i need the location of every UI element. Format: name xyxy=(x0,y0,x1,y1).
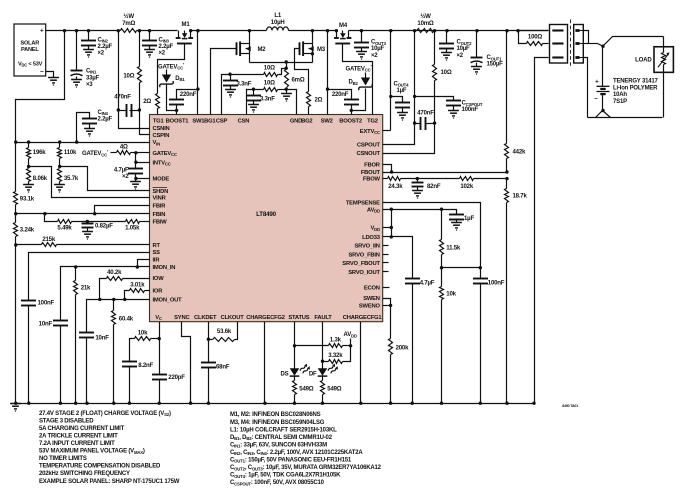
svg-text:18.7k: 18.7k xyxy=(513,194,528,200)
svg-text:27.4V STAGE 2 (FLOAT) CHARGE V: 27.4V STAGE 2 (FLOAT) CHARGE VOLTAGE (VS… xyxy=(39,411,171,417)
svg-text:LOAD: LOAD xyxy=(635,58,652,64)
svg-text:EXAMPLE SOLAR PANEL: SHARP NT-: EXAMPLE SOLAR PANEL: SHARP NT-175UC1 175… xyxy=(39,479,180,485)
svg-text:33µF: 33µF xyxy=(86,75,100,81)
label 10nF IMON_OUT xyxy=(95,336,109,342)
label 8.2nF xyxy=(138,363,153,369)
svg-text:M3: M3 xyxy=(317,47,326,53)
svg-text:6mΩ: 6mΩ xyxy=(292,78,305,84)
wire TEMPSENSE row xyxy=(383,203,481,268)
wire M3 gate to 2ohm xyxy=(295,49,309,92)
node MODE junction xyxy=(134,177,137,180)
svg-text:×2: ×2 xyxy=(122,174,129,180)
svg-text:102k: 102k xyxy=(460,184,473,190)
svg-text:2A TRICKLE CURRENT LIMIT: 2A TRICKLE CURRENT LIMIT xyxy=(39,434,118,440)
ground CIN3 xyxy=(144,50,155,58)
node INTVCC junction xyxy=(134,161,137,164)
capacitor 82nF xyxy=(412,179,424,191)
solar panel source box xyxy=(14,24,46,76)
label 3.3nF CSP xyxy=(237,82,252,88)
svg-text:110k: 110k xyxy=(64,150,77,156)
wire to CSPIN pin xyxy=(140,111,150,135)
diode DB2 xyxy=(349,73,373,91)
label 200k xyxy=(396,346,409,352)
node 6mohm top xyxy=(285,60,288,63)
wire battery return to ground bus xyxy=(535,58,549,404)
IC top pin labels xyxy=(153,119,378,125)
wire AVDD supply stub xyxy=(350,339,352,346)
wire CLKDET column xyxy=(208,322,210,340)
svg-text:RT: RT xyxy=(153,243,161,249)
wire M3 source rail xyxy=(311,49,314,63)
svg-text:COUT2, COUT3: 10µF, 35V, MURAT: COUT2, COUT3: 10µF, 35V, MURATA GRM32ER7… xyxy=(230,465,382,471)
svg-text:CSPIN: CSPIN xyxy=(153,133,170,139)
wire INTVCC branch xyxy=(136,153,150,163)
svg-text:10k: 10k xyxy=(446,291,456,297)
resistor 442k xyxy=(505,31,509,173)
node STATUS junction xyxy=(293,344,296,347)
svg-text:GATEVCC: GATEVCC xyxy=(153,151,177,157)
rheostat load symbol xyxy=(658,52,670,67)
label 220nF boost1 xyxy=(180,92,197,98)
ground COUT3 xyxy=(356,52,367,60)
wire IMON_IN row xyxy=(61,267,150,321)
wire VINR branch xyxy=(29,167,150,198)
inductor L1 10uH xyxy=(267,27,289,31)
svg-text:3.3nF: 3.3nF xyxy=(260,97,275,103)
svg-text:CSN: CSN xyxy=(238,119,250,125)
ground COUT4 xyxy=(397,113,408,121)
label 1.3k xyxy=(330,337,342,343)
svg-text:IOW: IOW xyxy=(153,276,165,282)
svg-text:SWEN: SWEN xyxy=(363,296,380,302)
capacitor COUT4 1uF xyxy=(395,103,410,113)
label 60.4k xyxy=(119,316,134,322)
svg-text:BG2: BG2 xyxy=(301,119,312,125)
wire IIR branch xyxy=(138,260,150,267)
resistor 24.3k FBOW xyxy=(383,177,418,181)
resistor 215k xyxy=(16,243,150,247)
svg-text:EXTVCC: EXTVCC xyxy=(360,129,380,135)
svg-text:10µF: 10µF xyxy=(371,46,385,52)
svg-text:FBOUT: FBOUT xyxy=(361,170,381,176)
wire LDO33 to cap xyxy=(392,237,413,279)
wire SS branch xyxy=(29,253,150,301)
pin stub SRVO_FBOUT xyxy=(383,262,389,264)
resistor 200k xyxy=(389,306,393,404)
svg-text:FAULT: FAULT xyxy=(314,315,332,321)
node 0.82uF tap xyxy=(86,220,89,223)
pin stub SRVO_IOUT xyxy=(383,271,389,273)
wire IMON_OUT row xyxy=(87,300,150,333)
svg-text:196k: 196k xyxy=(33,150,46,156)
wire EXTVCC column xyxy=(383,31,391,131)
svg-text:0.82µF: 0.82µF xyxy=(95,224,113,230)
svg-text:10mΩ: 10mΩ xyxy=(417,21,434,27)
wire battery top lead xyxy=(602,47,604,87)
svg-text:FBIR: FBIR xyxy=(153,204,167,210)
label 10ohm CSP xyxy=(264,66,275,72)
capacitor 470nF input sense xyxy=(119,104,140,117)
notes column right xyxy=(230,412,382,486)
node TEMPSENSE divider xyxy=(440,266,482,269)
svg-text:TG1: TG1 xyxy=(153,119,165,125)
node IMON_OUT taps xyxy=(98,298,126,301)
wire MODE pin xyxy=(136,178,150,180)
label 2ohm TG1 xyxy=(143,99,151,105)
node COUT4 tap xyxy=(389,95,392,98)
resistor 11.5k xyxy=(440,210,444,268)
node RT left xyxy=(14,243,17,246)
svg-text:Li-Ion POLYMER: Li-Ion POLYMER xyxy=(613,85,658,91)
svg-text:10nF: 10nF xyxy=(39,321,53,327)
node 3.3nF CSP tap xyxy=(228,73,231,76)
svg-text:VDD: VDD xyxy=(370,226,379,232)
capacitor 8.2nF xyxy=(122,362,137,404)
resistor 35.7k xyxy=(58,169,62,185)
pin stub SRVO_FBIN xyxy=(383,254,389,256)
IC right pin labels xyxy=(342,129,381,310)
svg-text:2.2µF: 2.2µF xyxy=(98,44,113,50)
wire DB2 cathode to BOOST2 xyxy=(352,89,366,111)
svg-text:1µF: 1µF xyxy=(397,88,407,94)
wire CCSPOUT branch xyxy=(415,97,454,101)
label 21k xyxy=(81,286,91,292)
label 7mohm xyxy=(122,13,135,27)
svg-text:IMON_IN: IMON_IN xyxy=(153,265,176,271)
label 3.24k xyxy=(20,228,35,234)
svg-text:SS: SS xyxy=(153,250,161,256)
wire GATEVCC pin xyxy=(136,152,150,154)
svg-text:CIN2: CIN2 xyxy=(98,37,109,43)
capacitor 1uF AVDD xyxy=(449,215,464,223)
svg-text:10Ω: 10Ω xyxy=(264,81,275,87)
node 3.3nF CSN tap xyxy=(252,88,255,91)
wire SW1 pin column xyxy=(197,31,199,115)
node VOUT taps xyxy=(360,29,520,32)
ground 6mohm xyxy=(281,90,292,102)
svg-text:53.6k: 53.6k xyxy=(217,329,232,335)
svg-text:DS: DS xyxy=(280,371,288,377)
svg-text:BG1: BG1 xyxy=(204,119,216,125)
capacitor CCSPOUT 100nF xyxy=(446,101,461,111)
svg-text:CIN2, CIN3, CIN4: 2.2µF, 100V,: CIN2, CIN3, CIN4: 2.2µF, 100V, AVX 12101… xyxy=(230,450,363,456)
wire battery to load bus xyxy=(596,111,611,118)
svg-text:DB2: DB2 xyxy=(349,80,359,86)
ground main bus xyxy=(10,404,21,412)
wire M3 drain xyxy=(311,29,314,43)
svg-text:3.3nF: 3.3nF xyxy=(237,82,252,88)
op-amp U1 LT8490 charge controller IC body xyxy=(150,115,383,322)
svg-text:1µF: 1µF xyxy=(464,216,474,222)
svg-text:BOOST2: BOOST2 xyxy=(339,119,362,125)
svg-text:NO TIMER LIMITS: NO TIMER LIMITS xyxy=(39,456,87,462)
svg-text:INTVCC: INTVCC xyxy=(153,160,171,166)
capacitor 220nF boost1 xyxy=(169,90,198,111)
svg-text:PANEL: PANEL xyxy=(21,47,39,53)
svg-text:7.2A INPUT CURRENT LIMIT: 7.2A INPUT CURRENT LIMIT xyxy=(39,441,115,447)
label 549ohm DF xyxy=(327,387,341,393)
wire ground bus xyxy=(16,403,535,405)
resistor 10ohm input CSP filter xyxy=(138,31,142,111)
svg-text:68nF: 68nF xyxy=(216,364,230,370)
svg-text:10Ω: 10Ω xyxy=(123,73,134,79)
wire jack bottom to load bus xyxy=(584,58,588,118)
wire CSNIN tap xyxy=(118,31,120,111)
label 102k xyxy=(460,184,473,190)
resistor 3.32k xyxy=(323,346,351,364)
label 10k VC xyxy=(138,331,148,337)
svg-text:7S1P: 7S1P xyxy=(613,99,627,105)
svg-text:CLKDET: CLKDET xyxy=(194,315,217,321)
svg-text:½W: ½W xyxy=(420,13,431,20)
svg-text:2.2µF: 2.2µF xyxy=(98,117,113,123)
resistor 2ohm BG2 xyxy=(307,92,311,115)
ground CCSPOUT xyxy=(448,111,459,119)
svg-text:M1, M2: INFINEON BSC028N06NS: M1, M2: INFINEON BSC028N06NS xyxy=(230,412,321,418)
svg-text:220nF: 220nF xyxy=(332,92,349,98)
svg-text:60.4k: 60.4k xyxy=(119,316,134,322)
resistor 1.3k xyxy=(295,344,351,348)
node BOOST1/SW1 bootstrap xyxy=(175,87,200,112)
svg-text:2Ω: 2Ω xyxy=(143,99,151,105)
svg-text:AVDD: AVDD xyxy=(367,207,380,213)
svg-text:FBIW: FBIW xyxy=(153,220,168,226)
svg-text:1.05k: 1.05k xyxy=(125,226,140,232)
svg-text:4Ω: 4Ω xyxy=(120,144,128,150)
label 10ohm output xyxy=(441,70,452,76)
wire STATUS column xyxy=(294,322,296,369)
label 24.3k xyxy=(388,184,403,190)
svg-text:200k: 200k xyxy=(396,346,409,352)
label CCSPOUT xyxy=(462,101,483,114)
svg-text:202kHz SWITCHING FREQUENCY: 202kHz SWITCHING FREQUENCY xyxy=(39,471,130,477)
node IMON_IN taps xyxy=(74,265,139,268)
wire load box leads xyxy=(663,37,665,118)
label CIN1 xyxy=(86,68,100,88)
node M1 stubs xyxy=(189,29,200,32)
label L1 xyxy=(271,13,285,26)
resistor 5.49k xyxy=(58,220,72,224)
ground 0.82uF xyxy=(82,232,93,240)
label 220nF boost2 xyxy=(332,92,349,98)
svg-text:100nF: 100nF xyxy=(38,301,55,307)
svg-text:5.49k: 5.49k xyxy=(57,226,72,232)
svg-text:FBOR: FBOR xyxy=(364,163,381,169)
svg-text:24.3k: 24.3k xyxy=(388,184,403,190)
label 110k xyxy=(64,150,77,156)
label 35.7k xyxy=(64,176,79,182)
IC bottom pin labels xyxy=(155,315,382,321)
svg-text:½W: ½W xyxy=(124,13,135,20)
wire IOW row xyxy=(123,278,150,280)
label 5.49k xyxy=(57,226,72,232)
label COUT2 xyxy=(457,40,473,59)
resistor 196k xyxy=(27,143,31,167)
resistor 10k divider xyxy=(440,268,444,404)
resistor 3.24k xyxy=(14,214,18,245)
ground COUT2 xyxy=(441,53,452,61)
label 215k xyxy=(42,237,55,243)
label 4.7uF x2 xyxy=(114,168,129,180)
svg-text:AVDD: AVDD xyxy=(344,332,357,338)
svg-text:11.5k: 11.5k xyxy=(446,246,461,252)
svg-text:10nF: 10nF xyxy=(95,336,109,342)
node VIN row taps xyxy=(14,140,78,143)
node FAULT junction xyxy=(321,360,324,363)
node BOOST2/SW2 bootstrap xyxy=(326,87,353,112)
svg-text:+: + xyxy=(595,78,599,85)
capacitor COUT3 10uF xyxy=(354,31,369,52)
wire input bus to M1 xyxy=(137,30,178,32)
wire SYNC to ground xyxy=(182,322,191,404)
resistor R-sense-out 10mohm xyxy=(417,29,435,33)
label 3.3nF CSN xyxy=(260,97,275,103)
svg-text:M2: M2 xyxy=(258,47,267,53)
svg-text:CHARGECFG2: CHARGECFG2 xyxy=(246,315,285,321)
node GATEVCC junction xyxy=(134,151,137,154)
label 0.82uF xyxy=(95,224,113,230)
svg-text:DB1, DB2: CENTRAL SEMI CMMR1U-: DB1, DB2: CENTRAL SEMI CMMR1U-02 xyxy=(230,435,333,441)
label 220pF xyxy=(168,375,185,381)
svg-text:150µF: 150µF xyxy=(487,62,504,68)
svg-text:SRVO_IIN: SRVO_IIN xyxy=(354,244,379,250)
wire M2 source xyxy=(249,54,251,63)
wire 6mohm to GND pin xyxy=(287,90,297,115)
node ground bus taps xyxy=(14,402,536,405)
wire SW2 pin column xyxy=(326,29,329,114)
wire VIN feed from bus xyxy=(16,31,65,143)
capacitor 220nF boost2 xyxy=(328,90,360,111)
svg-text:10k: 10k xyxy=(138,331,148,337)
ground 82nF xyxy=(412,191,423,199)
label CIN2 xyxy=(98,37,113,56)
pin stub ECON xyxy=(383,287,390,289)
label 10nF IMON_IN xyxy=(39,321,53,327)
wire M1 gate to TG1 column xyxy=(158,44,185,94)
label 10mohm xyxy=(417,13,434,27)
svg-text:10µF: 10µF xyxy=(457,46,471,52)
wire VIN row xyxy=(16,142,150,144)
ground MODE cap xyxy=(130,179,141,190)
capacitor COUT1 150uF xyxy=(471,31,483,67)
node FB divider xyxy=(505,170,508,180)
ground COUT1 xyxy=(471,67,482,75)
label 196k xyxy=(33,150,46,156)
wire COUT4 elbow xyxy=(391,97,403,103)
capacitor 10nF IMON_OUT xyxy=(79,333,94,404)
label 10ohm CSN xyxy=(264,81,275,87)
wire CHARGECFG2 column xyxy=(264,322,266,404)
label GATEVCC prime 2 xyxy=(346,65,373,73)
capacitor CIN3 2.2uF xyxy=(142,31,157,50)
notes column left xyxy=(39,411,180,485)
wire FBIN row xyxy=(16,213,150,215)
svg-text:IOR: IOR xyxy=(153,289,164,295)
label 8.06k xyxy=(33,176,48,182)
node CSPOUT branch xyxy=(413,95,416,98)
resistor 60.4k xyxy=(112,300,116,404)
wire CSP run xyxy=(222,75,264,115)
wire battery plus merge xyxy=(584,31,604,47)
label 100nF divider xyxy=(488,280,505,286)
wire left column to ground bus xyxy=(15,245,17,404)
wire CSN run xyxy=(247,90,264,115)
svg-text:BOOST1: BOOST1 xyxy=(166,119,190,125)
svg-text:DB1: DB1 xyxy=(175,76,185,82)
node FBIN left xyxy=(14,212,17,215)
wire SWEN to SWENO xyxy=(383,299,391,306)
svg-text:−: − xyxy=(594,96,598,103)
svg-text:COUT2: COUT2 xyxy=(457,40,473,46)
svg-text:549Ω: 549Ω xyxy=(327,387,341,393)
capacitor 220pF xyxy=(152,339,167,404)
label 18.7k xyxy=(513,194,528,200)
svg-text:COUT3: COUT3 xyxy=(371,40,387,46)
label 442k xyxy=(513,150,526,156)
wire BOOST1 pin xyxy=(176,111,178,115)
svg-text:8.2nF: 8.2nF xyxy=(138,363,153,369)
label 4ohm xyxy=(120,144,128,150)
IC left pin labels xyxy=(153,126,183,303)
svg-text:3.24k: 3.24k xyxy=(20,228,35,234)
svg-text:5A CHARGING CURRENT LIMIT: 5A CHARGING CURRENT LIMIT xyxy=(39,426,125,432)
wire divider link xyxy=(442,267,481,269)
node LDO33 junction xyxy=(390,235,393,238)
capacitor 470nF output sense xyxy=(415,117,435,130)
svg-text:21k: 21k xyxy=(81,286,91,292)
resistor 8.06k xyxy=(27,169,31,185)
wire M2 gate to BG1 xyxy=(211,49,237,115)
svg-text:FBIN: FBIN xyxy=(153,212,166,218)
svg-text:CIN4: CIN4 xyxy=(98,110,109,116)
svg-text:3.32k: 3.32k xyxy=(328,353,343,359)
label GATEVCC prime input xyxy=(82,150,109,158)
diode DB1 xyxy=(160,70,186,88)
label 2ohm BG2 xyxy=(315,97,323,103)
svg-text:100Ω: 100Ω xyxy=(528,35,542,41)
wire FBOR row xyxy=(383,165,392,173)
svg-text:549Ω: 549Ω xyxy=(299,387,313,393)
resistor 102k FBOW xyxy=(418,177,507,181)
LED DF fault xyxy=(309,364,339,378)
svg-text:40.2k: 40.2k xyxy=(107,270,122,276)
label 93.1k xyxy=(20,197,35,203)
svg-text:4.7µF: 4.7µF xyxy=(420,280,435,286)
svg-text:CIN1: 33µF, 63V, SUNCON 63HVH3: CIN1: 33µF, 63V, SUNCON 63HVH33M xyxy=(230,442,327,448)
svg-text:215k: 215k xyxy=(42,237,55,243)
node input sense taps xyxy=(117,108,141,111)
label 549ohm DS xyxy=(299,387,313,393)
resistor 6mohm xyxy=(285,63,289,90)
svg-text:DF: DF xyxy=(309,371,317,377)
label 10ohm input xyxy=(123,73,134,79)
node AVDD taps xyxy=(390,208,444,211)
svg-text:L1: 10µH COILCRAFT SER2915H-10: L1: 10µH COILCRAFT SER2915H-103KL xyxy=(230,427,337,433)
svg-text:470nF: 470nF xyxy=(114,94,131,100)
node output sense taps xyxy=(413,121,436,124)
svg-text:470nF: 470nF xyxy=(417,111,434,117)
svg-text:1.3k: 1.3k xyxy=(330,337,342,343)
ground CIN1 xyxy=(71,80,82,88)
label 4.7uF LDO33 xyxy=(420,280,435,286)
label 82nF xyxy=(427,184,441,190)
resistor 53.6k xyxy=(209,322,238,342)
svg-text:+: + xyxy=(40,27,44,34)
wire SWENO row xyxy=(383,305,391,307)
capacitor 4.7uF LDO33 xyxy=(405,279,420,404)
wire FBIW mid xyxy=(72,221,126,223)
svg-text:2.2µF: 2.2µF xyxy=(159,44,174,50)
